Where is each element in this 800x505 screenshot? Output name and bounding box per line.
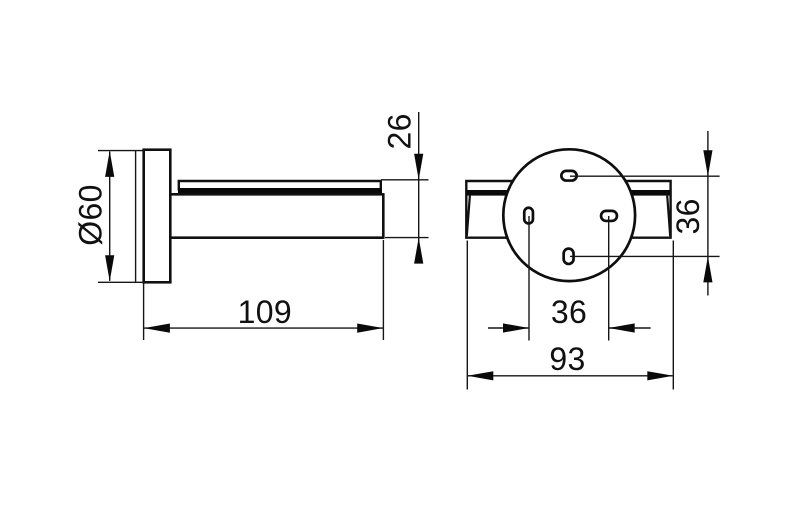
svg-text:109: 109 bbox=[238, 294, 292, 330]
svg-text:26: 26 bbox=[381, 113, 417, 149]
svg-text:93: 93 bbox=[549, 341, 585, 377]
svg-text:36: 36 bbox=[670, 198, 706, 234]
svg-text:Ø60: Ø60 bbox=[72, 184, 108, 245]
svg-text:36: 36 bbox=[551, 294, 587, 330]
